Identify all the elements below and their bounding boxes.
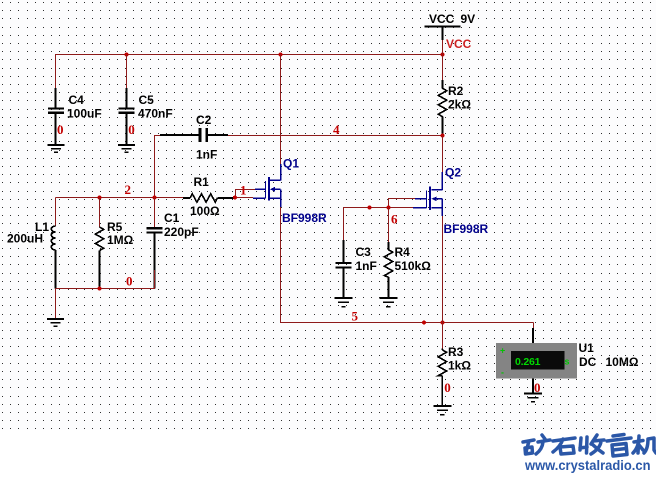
svg-text:C1: C1	[164, 211, 180, 225]
ground below C4	[48, 145, 65, 152]
svg-text:www.crystalradio.cn: www.crystalradio.cn	[524, 457, 650, 473]
svg-text:s: s	[565, 357, 570, 367]
node junction top rail C5	[124, 52, 128, 56]
label R3	[448, 345, 471, 373]
node junction R5 top	[97, 195, 101, 199]
ground below C5	[118, 145, 135, 152]
svg-text:R4: R4	[395, 245, 411, 259]
wire node 6	[344, 199, 416, 241]
wire Q1 drain up	[280, 55, 282, 165]
node junction node5 R3	[440, 320, 444, 324]
svg-text:C3: C3	[356, 245, 372, 259]
label C1	[164, 211, 199, 239]
svg-text:220pF: 220pF	[164, 225, 199, 239]
ground below meter	[524, 393, 542, 402]
wire Q2 drain column	[442, 136, 444, 173]
label C3	[356, 245, 377, 273]
label U1	[579, 341, 639, 369]
svg-text:0: 0	[57, 122, 64, 137]
svg-text:R2: R2	[448, 84, 464, 98]
node junction node6 R4	[386, 205, 390, 209]
wire node5 to meter	[533, 323, 535, 329]
wire C2 left to node 2	[155, 136, 161, 198]
ground below R4	[379, 298, 397, 307]
svg-text:470nF: 470nF	[138, 107, 173, 121]
node junction R5 bottom	[97, 286, 101, 290]
svg-text:BF998R: BF998R	[444, 222, 489, 236]
svg-text:U1: U1	[579, 341, 595, 355]
wire VCC down	[442, 40, 444, 55]
capacitor C1	[147, 198, 163, 289]
node junction node4/R2	[440, 133, 444, 137]
label C4	[67, 93, 102, 121]
wire node 0 rail	[56, 270, 155, 289]
svg-text:R1: R1	[194, 175, 210, 189]
svg-text:BF998R: BF998R	[282, 211, 327, 225]
svg-text:0: 0	[128, 122, 135, 137]
glyph shi	[553, 438, 575, 454]
wire meter lead	[532, 328, 534, 343]
watermark logo 矿石收音机	[523, 435, 656, 457]
svg-text:5: 5	[352, 309, 359, 324]
svg-text:100uF: 100uF	[67, 107, 102, 121]
transistor Q1 BF998R	[253, 164, 281, 207]
glyph yin	[607, 435, 631, 457]
inductor L1	[51, 198, 55, 289]
svg-text:1MΩ: 1MΩ	[107, 233, 134, 247]
glyph ji	[633, 436, 656, 453]
capacitor C4	[48, 88, 64, 144]
ground below R3	[433, 406, 451, 415]
label R5	[107, 220, 134, 247]
svg-text:100Ω: 100Ω	[190, 204, 220, 218]
svg-text:10MΩ: 10MΩ	[606, 355, 639, 369]
resistor R5	[95, 198, 103, 289]
svg-text:200uH: 200uH	[7, 232, 43, 246]
svg-text:2kΩ: 2kΩ	[448, 98, 471, 112]
label C2	[196, 113, 217, 162]
wire Q1 source down to node 5	[281, 207, 534, 323]
svg-text:1nF: 1nF	[196, 148, 217, 162]
label R2	[448, 84, 471, 112]
resistor R3	[438, 323, 446, 406]
wire Q2 source down	[441, 216, 443, 323]
transistor Q2 BF998R	[413, 172, 442, 216]
capacitor C5	[119, 55, 135, 145]
wire meter to ground	[532, 378, 534, 392]
node junction node6 a	[367, 205, 371, 209]
svg-text:Q1: Q1	[283, 157, 299, 171]
svg-text:-: -	[501, 368, 504, 378]
node junction top rail Q1 drain	[278, 52, 282, 56]
svg-text:1: 1	[240, 183, 247, 198]
multimeter U1	[496, 343, 577, 378]
svg-text:R3: R3	[448, 345, 464, 359]
svg-text:6: 6	[391, 212, 398, 227]
svg-text:DC: DC	[579, 355, 597, 369]
wire L1 to ground	[55, 289, 57, 319]
label C5	[138, 93, 173, 121]
arrow Q2 substrate	[432, 196, 437, 201]
node junction top rail VCC	[440, 52, 444, 56]
svg-text:9V: 9V	[461, 12, 476, 26]
svg-text:C5: C5	[139, 93, 155, 107]
svg-text:VCC: VCC	[429, 12, 455, 26]
label R1	[190, 175, 220, 218]
svg-text:4: 4	[333, 122, 340, 137]
svg-text:R5: R5	[107, 220, 123, 234]
node junction R1/gate	[233, 195, 237, 199]
ground below L1	[47, 319, 64, 326]
svg-text:VCC: VCC	[446, 37, 472, 51]
resistor R1	[183, 194, 235, 202]
power VCC symbol	[424, 27, 460, 41]
label L1	[7, 220, 49, 246]
ground below C3	[335, 298, 353, 307]
capacitor C3	[336, 240, 352, 297]
glyph shou	[580, 435, 604, 454]
wire node 1 jog to Q1 gates	[235, 190, 255, 198]
svg-text:1kΩ: 1kΩ	[448, 359, 471, 373]
node junction node5 a	[422, 320, 426, 324]
svg-text:510kΩ: 510kΩ	[395, 259, 432, 273]
wire node 4 rail	[228, 135, 443, 137]
glyph kuang	[523, 435, 550, 454]
resistor R2	[438, 55, 446, 136]
label VCC 9V	[429, 12, 475, 26]
svg-text:0: 0	[126, 274, 133, 289]
svg-text:C4: C4	[69, 93, 85, 107]
capacitor C2	[160, 128, 228, 142]
node junction C1 top	[152, 195, 156, 199]
wire node 2 rail	[56, 197, 184, 199]
svg-text:Q2: Q2	[445, 166, 461, 180]
svg-text:+: +	[500, 346, 505, 356]
svg-text:C2: C2	[196, 113, 212, 127]
resistor R4	[384, 208, 392, 298]
arrow Q1 substrate	[270, 187, 275, 192]
wire VCC top rail	[56, 55, 444, 109]
label R4	[395, 245, 432, 273]
svg-text:1nF: 1nF	[356, 259, 377, 273]
svg-text:0.261: 0.261	[515, 356, 541, 368]
svg-text:0: 0	[444, 380, 451, 395]
svg-text:2: 2	[125, 182, 132, 197]
